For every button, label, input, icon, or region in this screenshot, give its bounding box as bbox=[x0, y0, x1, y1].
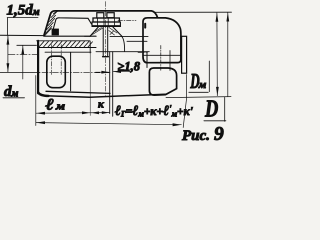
gap dim arrow right bbox=[113, 70, 130, 72]
dim line lG y123 bbox=[36, 123, 181, 125]
main axis centerline bbox=[42, 72, 110, 74]
hub face extension vertical x90 bbox=[89, 42, 91, 54]
pin centerline B (dash-dot) bbox=[60, 45, 62, 75]
svg-text:9: 9 bbox=[214, 124, 224, 143]
bushing square (left) bbox=[47, 56, 66, 87]
Dm box underline bbox=[189, 91, 209, 93]
cone flange right slant bbox=[113, 27, 122, 36]
svg-text:м: м bbox=[55, 100, 66, 112]
D box right vertical bbox=[224, 97, 226, 121]
cap outer contour bbox=[44, 11, 158, 36]
dim 1,5dm leader vertical bbox=[7, 18, 9, 36]
hub strip bottom line bbox=[39, 47, 97, 49]
nut facets bbox=[98, 18, 115, 26]
ext line bore top left bbox=[17, 44, 37, 46]
bolt shank left line bbox=[102, 27, 104, 57]
inner line right half bbox=[127, 40, 147, 42]
nut side centerline (dash-dot) bbox=[118, 20, 136, 22]
svg-text:ℓГ=ℓм+κ+ℓʹм+κʹ: ℓГ=ℓм+κ+ℓʹм+κʹ bbox=[115, 104, 193, 120]
hub strip hatching bbox=[39, 41, 93, 47]
svg-text:м: м bbox=[198, 79, 207, 91]
nut upper bar bbox=[93, 18, 119, 22]
node cap seat line bbox=[44, 35, 96, 37]
cap inner contour bbox=[52, 18, 91, 33]
cap hatching bbox=[45, 11, 58, 36]
arrow k left bbox=[92, 111, 100, 114]
cone hatching bbox=[93, 28, 118, 36]
lower right blob bbox=[149, 68, 176, 95]
arrow lG left bbox=[36, 121, 45, 124]
pin centerline right (dash-dot) bbox=[138, 52, 148, 54]
hub bottom chamfer bbox=[38, 93, 48, 96]
upper right blob bbox=[143, 18, 181, 63]
wire top extension line to D arrows bbox=[155, 11, 232, 13]
dim line lm+k y113 bbox=[36, 112, 109, 115]
bolt axis centerline bbox=[104, 2, 106, 97]
arrow k right bbox=[102, 111, 110, 114]
svg-text:ℓ: ℓ bbox=[44, 96, 54, 113]
bolt top rect left bbox=[97, 13, 104, 18]
svg-text:D: D bbox=[204, 95, 218, 122]
boss right edge curve bbox=[122, 37, 125, 52]
dim line Dm x217 bbox=[216, 13, 218, 96]
wire right-half bottom edge bbox=[49, 94, 166, 97]
bore top line right bbox=[96, 51, 149, 53]
arrow lm right bbox=[82, 111, 90, 114]
bolt tip bbox=[103, 56, 109, 58]
ext line lG right (slanted) bbox=[183, 75, 186, 128]
washer line bbox=[92, 25, 121, 27]
dim line dm bbox=[22, 46, 24, 79]
gap face right bbox=[112, 52, 114, 117]
inner vertical line right of square bbox=[70, 52, 72, 90]
svg-text:Рис.: Рис. bbox=[182, 128, 210, 143]
bore top line left bbox=[45, 51, 91, 53]
gap dim arrow left bbox=[96, 71, 109, 73]
hub bottom edge bbox=[46, 91, 110, 93]
ext line lm left x36 bbox=[35, 76, 37, 126]
pin centerline A (dash-dot) bbox=[51, 45, 53, 75]
dim line D x228 bbox=[227, 13, 229, 97]
flange ring rect right bbox=[182, 36, 187, 73]
nut lower bar bbox=[92, 22, 120, 26]
label dm underline bbox=[3, 97, 25, 99]
flange base line right bbox=[110, 36, 148, 38]
arrow lG right bbox=[173, 123, 182, 126]
dim line 1,5dm bbox=[7, 36, 9, 72]
hub top hatched strip: top line bbox=[37, 40, 90, 42]
bolt hole centerline C bbox=[160, 46, 162, 72]
hub left face (thick) bbox=[37, 41, 39, 93]
ext line axis left bbox=[0, 71, 40, 73]
left short centerline (dash-dot) bbox=[8, 54, 37, 56]
svg-text:≥1,8: ≥1,8 bbox=[118, 59, 141, 73]
D box underline bbox=[204, 120, 226, 122]
seal block (black square) bbox=[52, 29, 59, 36]
dim 1,5dm leader underline bbox=[7, 17, 38, 19]
Dm box right vertical bbox=[208, 61, 210, 92]
right half face upper mark bbox=[144, 24, 146, 28]
arrow lm left bbox=[36, 112, 45, 115]
gap face left bbox=[109, 52, 111, 114]
line y97 right bbox=[166, 97, 231, 98]
bolt top rect right bbox=[107, 13, 114, 18]
cone flange left slant bbox=[90, 27, 98, 36]
flange base line left bbox=[85, 35, 91, 37]
upper blob inner line bbox=[143, 54, 180, 56]
ext line hub top left bbox=[0, 34, 44, 36]
bolt hole line D bbox=[169, 51, 171, 71]
right half face between blobs bbox=[146, 53, 148, 68]
bolt shank right line bbox=[107, 27, 109, 57]
